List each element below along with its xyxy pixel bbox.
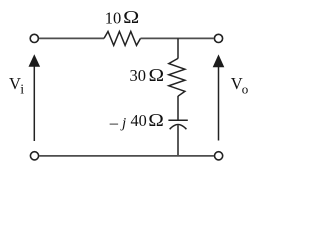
terminal top-right	[214, 34, 222, 42]
terminal bottom-right	[215, 152, 223, 160]
capacitor C1 curved bottom plate	[170, 124, 187, 129]
resistor R2 30 ohm zigzag	[169, 58, 185, 96]
bottom wire	[39, 155, 214, 157]
resistor R1 10 ohm zigzag	[104, 32, 141, 46]
svg-text:–: –	[109, 113, 119, 132]
svg-text:i: i	[20, 83, 24, 98]
terminal bottom-left	[30, 152, 38, 160]
svg-text:Ω: Ω	[149, 67, 165, 86]
svg-text:o: o	[242, 81, 249, 96]
svg-text:V: V	[9, 74, 21, 93]
svg-text:Ω: Ω	[148, 111, 164, 130]
capacitor lead down to bottom wire	[177, 125, 179, 155]
Vi arrowhead	[29, 54, 41, 67]
capacitor C1 straight top plate	[168, 119, 187, 121]
svg-text:10: 10	[105, 8, 122, 27]
svg-text:40: 40	[131, 111, 147, 130]
terminal top-left	[30, 34, 38, 42]
wire top-right segment	[141, 37, 214, 39]
wire top-left segment	[39, 37, 104, 39]
Vo arrowhead	[213, 54, 225, 67]
Vo arrow shaft	[218, 67, 220, 141]
svg-text:j: j	[120, 116, 126, 132]
wire resistor to capacitor	[177, 96, 179, 120]
wire branch vertical top	[177, 38, 179, 58]
Vi arrow shaft	[33, 66, 35, 141]
svg-text:Ω: Ω	[123, 8, 139, 28]
svg-text:30: 30	[130, 66, 147, 85]
